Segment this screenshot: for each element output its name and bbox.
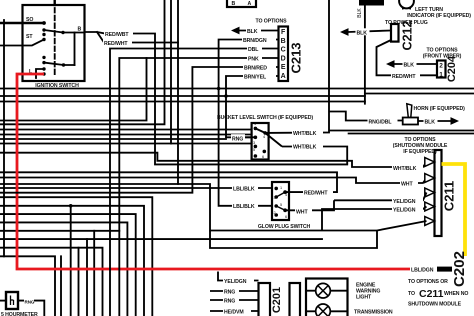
- arrow BLK options: [231, 27, 240, 35]
- wire RNG 1 c201: [210, 290, 259, 292]
- label WHT/BLK 2: [292, 142, 323, 150]
- svg-text:C204: C204: [446, 55, 458, 82]
- label YEL/DGN c201: [223, 277, 254, 285]
- node glow pin4: [274, 213, 278, 217]
- svg-text:RED/WHT: RED/WHT: [392, 74, 416, 80]
- node SO contact: [42, 21, 46, 25]
- bus y177.5 pin2 feed: [0, 178, 427, 184]
- svg-text:LBL/DGN: LBL/DGN: [411, 268, 434, 274]
- svg-text:C201: C201: [271, 287, 283, 313]
- bucket level switch box: [252, 123, 269, 160]
- svg-text:A: A: [281, 73, 286, 80]
- wire B fork lower: [97, 32, 104, 43]
- node staircase junction: [69, 204, 73, 208]
- wire lower loop left: [210, 231, 377, 249]
- wire top vertical x178: [177, 0, 179, 43]
- svg-text:F: F: [281, 29, 286, 36]
- label PNK: [247, 55, 262, 63]
- wire branch x87: [86, 239, 88, 316]
- svg-text:LBL/BLK: LBL/BLK: [233, 187, 255, 193]
- label YEL/RED: [223, 307, 251, 315]
- arrow BLK c204: [386, 60, 395, 68]
- pin chevron 3: [425, 188, 435, 197]
- wire fan 1: [0, 58, 147, 121]
- bus y188 glow feed 1: [0, 187, 272, 189]
- svg-text:B: B: [281, 38, 286, 45]
- svg-text:A: A: [248, 1, 252, 7]
- bus y134.5: [0, 134, 252, 136]
- svg-text:YEL/DGN: YEL/DGN: [224, 279, 247, 285]
- svg-text:HORN (IF EQUIPPED): HORN (IF EQUIPPED): [414, 106, 466, 112]
- label LBL/BLK 1: [232, 184, 258, 192]
- lamp transmission: [316, 304, 331, 316]
- staircase wire 1: [0, 197, 152, 316]
- wire SO feed: [0, 22, 44, 24]
- label WHT/BLK 1: [292, 129, 323, 137]
- wire BLK horn: [418, 120, 452, 122]
- label RED/WHT glow: [303, 188, 333, 196]
- svg-text:TRANSMISSION: TRANSMISSION: [354, 310, 393, 316]
- svg-text:C213: C213: [289, 42, 304, 73]
- wire YEL/RED c201: [210, 310, 259, 312]
- connector bar 2: [290, 283, 301, 316]
- svg-text:RED/WHT: RED/WHT: [304, 191, 328, 197]
- svg-text:5: 5: [253, 148, 255, 152]
- label RNG bucket: [231, 134, 245, 142]
- ignition L contact bracket: [36, 69, 44, 78]
- staircase wire 2: [0, 206, 144, 316]
- wire RED/WHT glow: [285, 172, 337, 192]
- wire RNG 2 c201: [210, 299, 259, 301]
- lamp transmission X: [318, 306, 328, 316]
- svg-text:WHEN NO: WHEN NO: [444, 291, 468, 297]
- wire WHT/BLK 1: [265, 0, 329, 133]
- svg-text:LIGHT: LIGHT: [356, 295, 372, 301]
- svg-text:SO: SO: [26, 17, 33, 23]
- connector C213 top cut box: [227, 0, 256, 7]
- wire red battery feed: [17, 74, 410, 269]
- lamp engine warning X: [318, 286, 328, 296]
- staircase wire 6: [0, 238, 322, 240]
- wire lower loop horizontal: [210, 230, 377, 232]
- svg-text:INDICATOR (IF EQUIPPED): INDICATOR (IF EQUIPPED): [407, 13, 471, 19]
- label BLK c212: [356, 28, 370, 36]
- svg-text:YEL/DGN: YEL/DGN: [393, 208, 416, 214]
- bucket switch splice diagonal: [265, 133, 282, 147]
- arrow BLK power plug: [340, 28, 349, 36]
- glow switch arm 1: [276, 192, 285, 197]
- connector C212: [391, 24, 399, 42]
- wire C212 to RED/WHT: [377, 40, 438, 75]
- label YEL/DGN 1: [392, 197, 423, 205]
- wire YEL/DGN 2 c211: [322, 207, 427, 231]
- svg-text:C: C: [281, 47, 286, 54]
- svg-text:2: 2: [274, 211, 276, 215]
- label BRN/DGN: [242, 36, 276, 44]
- glow plug switch box: [272, 182, 289, 220]
- svg-text:BRN/RED: BRN/RED: [244, 66, 267, 72]
- connector C204: [437, 61, 446, 78]
- svg-text:C202: C202: [451, 251, 468, 287]
- label RED/WHT 1: [104, 30, 133, 39]
- wire BRN/RED: [0, 67, 279, 193]
- ignition rotor arm lower: [44, 63, 75, 65]
- staircase wire 4: [0, 222, 127, 316]
- arrow BLK horn: [451, 117, 460, 125]
- node bucket pin5: [254, 154, 258, 158]
- label RED/WHT 2: [103, 39, 132, 47]
- connector C201: [259, 283, 271, 316]
- node contact b: [42, 33, 45, 36]
- node bucket pin4: [263, 131, 267, 135]
- node glow pin6: [283, 208, 287, 212]
- bucket switch arm: [255, 128, 265, 133]
- label RNG 2: [223, 296, 239, 304]
- wire RNG bucket: [245, 136, 255, 138]
- staircase wire 8: [0, 256, 55, 316]
- node bucket pin3: [254, 145, 258, 149]
- wire left vertical x5: [3, 20, 5, 256]
- svg-text:RNG: RNG: [25, 299, 35, 304]
- wire branch x78.5: [78, 248, 80, 316]
- svg-text:WHT: WHT: [401, 182, 413, 188]
- wire RED/WHT 1 to corner: [132, 34, 347, 165]
- svg-text:BRN/YEL: BRN/YEL: [244, 75, 267, 81]
- svg-text:WHT/BLK: WHT/BLK: [293, 131, 317, 137]
- hourmeter glyph: [11, 296, 14, 306]
- bus y130.5 right: [329, 130, 474, 132]
- bus y93.5 right: [365, 93, 474, 95]
- wire lamp2 lead right: [330, 310, 347, 312]
- svg-text:RED/WHT: RED/WHT: [104, 41, 128, 47]
- label YEL/DGN 2: [392, 206, 423, 214]
- wire ignition top stub: [54, 0, 56, 5]
- lamp box: [306, 279, 348, 316]
- ignition rotor arm upper to B: [44, 30, 85, 33]
- wire yellow jumper: [442, 164, 466, 256]
- label LBL/BLK 2: [232, 202, 258, 210]
- connector C202 bar: [437, 267, 452, 272]
- node arm pivot lower: [62, 63, 65, 66]
- svg-text:IF EQUIPPED): IF EQUIPPED): [403, 149, 437, 155]
- left turn indicator lamp: [399, 0, 414, 8]
- pin chevron 4: [425, 202, 435, 211]
- node contact c: [42, 56, 45, 59]
- staircase wire 5: [0, 230, 119, 232]
- staircase wire 7: [0, 248, 103, 316]
- svg-text:BUCKET LEVEL SWITCH (IF EQUIPP: BUCKET LEVEL SWITCH (IF EQUIPPED): [217, 115, 313, 121]
- svg-text:TO: TO: [408, 291, 415, 297]
- label WHT c211: [400, 180, 418, 188]
- wire fan 2: [0, 0, 165, 124]
- svg-text:BLK: BLK: [357, 8, 363, 18]
- label DBL: [247, 45, 262, 53]
- node glow pin3: [274, 204, 278, 208]
- svg-text:E: E: [281, 64, 286, 71]
- label WHT/BLK c211: [392, 164, 423, 172]
- node contact L: [42, 67, 45, 70]
- bus y88.5: [0, 88, 474, 90]
- svg-text:LBL/BLK: LBL/BLK: [233, 204, 255, 210]
- wire PNK: [119, 58, 278, 316]
- label WHT glow: [295, 207, 312, 215]
- svg-text:C211: C211: [442, 181, 457, 211]
- svg-text:RNG: RNG: [232, 136, 243, 142]
- node BRN/YEL bus tap: [224, 94, 228, 98]
- svg-text:HE/DVM: HE/DVM: [224, 310, 244, 316]
- node contact ST: [42, 38, 45, 41]
- node bucket pin6: [263, 150, 267, 154]
- node glow pin1: [274, 187, 278, 191]
- label BLK c213: [246, 27, 261, 35]
- ignition dashed key line: [54, 8, 56, 77]
- svg-text:5 HOURMETER: 5 HOURMETER: [1, 312, 38, 316]
- svg-text:RED/WBT: RED/WBT: [105, 32, 129, 38]
- label RED/WHT c204: [391, 72, 420, 80]
- wire lamp1 lead: [306, 290, 316, 292]
- wire BLK power plug: [348, 31, 391, 33]
- wire branch x70.7: [70, 206, 72, 316]
- wire WHT/BLK 2: [282, 147, 347, 165]
- svg-text:BLK: BLK: [404, 63, 415, 69]
- wire YEL/DGN 1 c211: [334, 193, 427, 201]
- svg-text:TO OPTIONS OR: TO OPTIONS OR: [408, 279, 448, 285]
- svg-text:YEL/DGN: YEL/DGN: [393, 199, 416, 205]
- connector black bar top: [359, 0, 384, 6]
- label BRN/YEL: [243, 73, 276, 81]
- hourmeter box: [6, 292, 18, 309]
- bus y133.5 right: [348, 133, 474, 135]
- svg-text:1: 1: [280, 186, 282, 190]
- bus y129.5: [0, 129, 252, 131]
- svg-text:C212: C212: [400, 21, 414, 51]
- bus y139: [0, 138, 226, 140]
- wire BLK to options: [238, 30, 279, 32]
- glow switch arm 2: [276, 206, 285, 210]
- wire branch x61: [60, 256, 62, 316]
- svg-text:C211: C211: [419, 288, 444, 300]
- wire WHT glow: [285, 200, 334, 210]
- wire lamp1 lead right: [330, 290, 347, 292]
- svg-text:3: 3: [274, 196, 276, 200]
- ignition switch box: [23, 5, 85, 81]
- node contact a: [42, 28, 45, 31]
- svg-text:1: 1: [439, 72, 443, 79]
- pin chevron 2: [425, 174, 435, 183]
- wire branch x94.2: [93, 231, 95, 316]
- svg-text:ST: ST: [26, 34, 33, 40]
- pin chevron 5: [425, 217, 435, 226]
- connector C211: [435, 150, 442, 236]
- svg-text:WHT: WHT: [296, 210, 308, 216]
- bus y101.5: [0, 101, 365, 103]
- staircase wire 3: [0, 214, 136, 316]
- svg-text:BLK: BLK: [247, 29, 258, 35]
- svg-text:PNK: PNK: [248, 57, 259, 63]
- label BLK c204: [403, 60, 417, 68]
- node bucket pin1: [254, 127, 258, 131]
- svg-text:BRN/DGN: BRN/DGN: [243, 38, 267, 44]
- svg-text:WHT/BLK: WHT/BLK: [293, 145, 317, 151]
- bus y143.5: [0, 143, 252, 145]
- svg-text:5: 5: [280, 203, 282, 207]
- connector C213: [279, 27, 289, 82]
- label BLK horn: [424, 117, 438, 125]
- node contact ACC: [42, 72, 45, 75]
- svg-text:6: 6: [262, 155, 264, 159]
- svg-text:WHT/BLK: WHT/BLK: [393, 166, 417, 172]
- pin digits bucket: [253, 122, 265, 159]
- svg-text:D: D: [281, 56, 286, 63]
- svg-text:SHUTDOWN MODULE: SHUTDOWN MODULE: [408, 302, 462, 308]
- wire top vertical x171: [170, 0, 172, 144]
- bus y96: [0, 95, 365, 97]
- svg-text:4: 4: [285, 193, 287, 197]
- node glow pin5: [283, 190, 287, 194]
- wire BLK c204: [394, 63, 437, 65]
- node contact d: [42, 61, 45, 64]
- horn symbol bell: [407, 104, 412, 118]
- lamp legs: [403, 7, 410, 10]
- wire RNG/DBL horn: [329, 112, 403, 121]
- label RNG/DBL: [368, 117, 398, 125]
- label BRN/RED: [243, 64, 276, 72]
- node BRN/DGN bus tap: [217, 87, 221, 91]
- wire RED/WHT 2 to corner: [130, 43, 178, 185]
- pin digits glow: [274, 186, 288, 219]
- svg-text:DBL: DBL: [248, 47, 259, 53]
- pin chevron 1: [425, 158, 435, 167]
- svg-text:RNG: RNG: [224, 290, 235, 296]
- label LBL/DGN c202: [410, 265, 437, 273]
- wire hourmeter RNG: [18, 301, 44, 316]
- label RNG hourmeter: [24, 297, 35, 304]
- svg-text:GLOW PLUG SWITCH: GLOW PLUG SWITCH: [258, 224, 311, 230]
- svg-text:RNG: RNG: [224, 299, 235, 305]
- node bucket pivot: [254, 136, 258, 140]
- wire lamp2 lead: [306, 310, 316, 312]
- svg-text:B: B: [232, 1, 236, 7]
- wire hourmeter left stub: [0, 300, 6, 302]
- wire BRN/DGN: [219, 40, 279, 206]
- svg-text:B: B: [78, 27, 82, 33]
- node arm pivot upper: [61, 31, 64, 34]
- wire B link vertical: [74, 33, 76, 66]
- wire diagonal pin5: [377, 221, 427, 231]
- wire YEL/DGN c201: [218, 272, 259, 281]
- bus y184 loop feed: [0, 184, 210, 231]
- wire BRN/YEL: [226, 76, 279, 137]
- bus y152.7: [0, 153, 427, 167]
- wire BLK lamp vertical: [364, 6, 366, 105]
- label RNG 1: [223, 287, 239, 295]
- svg-text:3: 3: [253, 141, 255, 145]
- svg-text:4: 4: [263, 135, 265, 139]
- svg-text:1: 1: [254, 122, 256, 126]
- svg-text:BLK: BLK: [357, 31, 368, 37]
- bus y172.3: [0, 171, 337, 173]
- svg-text:TO OPTIONS: TO OPTIONS: [256, 19, 288, 25]
- wire DBL: [110, 49, 279, 316]
- wire B fork: [85, 32, 106, 34]
- node glow pin2: [274, 195, 278, 199]
- lamp engine warning: [316, 283, 331, 298]
- svg-text:BLK: BLK: [425, 120, 436, 126]
- horn base: [403, 118, 418, 125]
- svg-text:6: 6: [285, 215, 287, 219]
- svg-text:RNG/DBL: RNG/DBL: [369, 120, 393, 126]
- svg-text:2: 2: [439, 63, 443, 70]
- wire ST feed: [0, 40, 44, 46]
